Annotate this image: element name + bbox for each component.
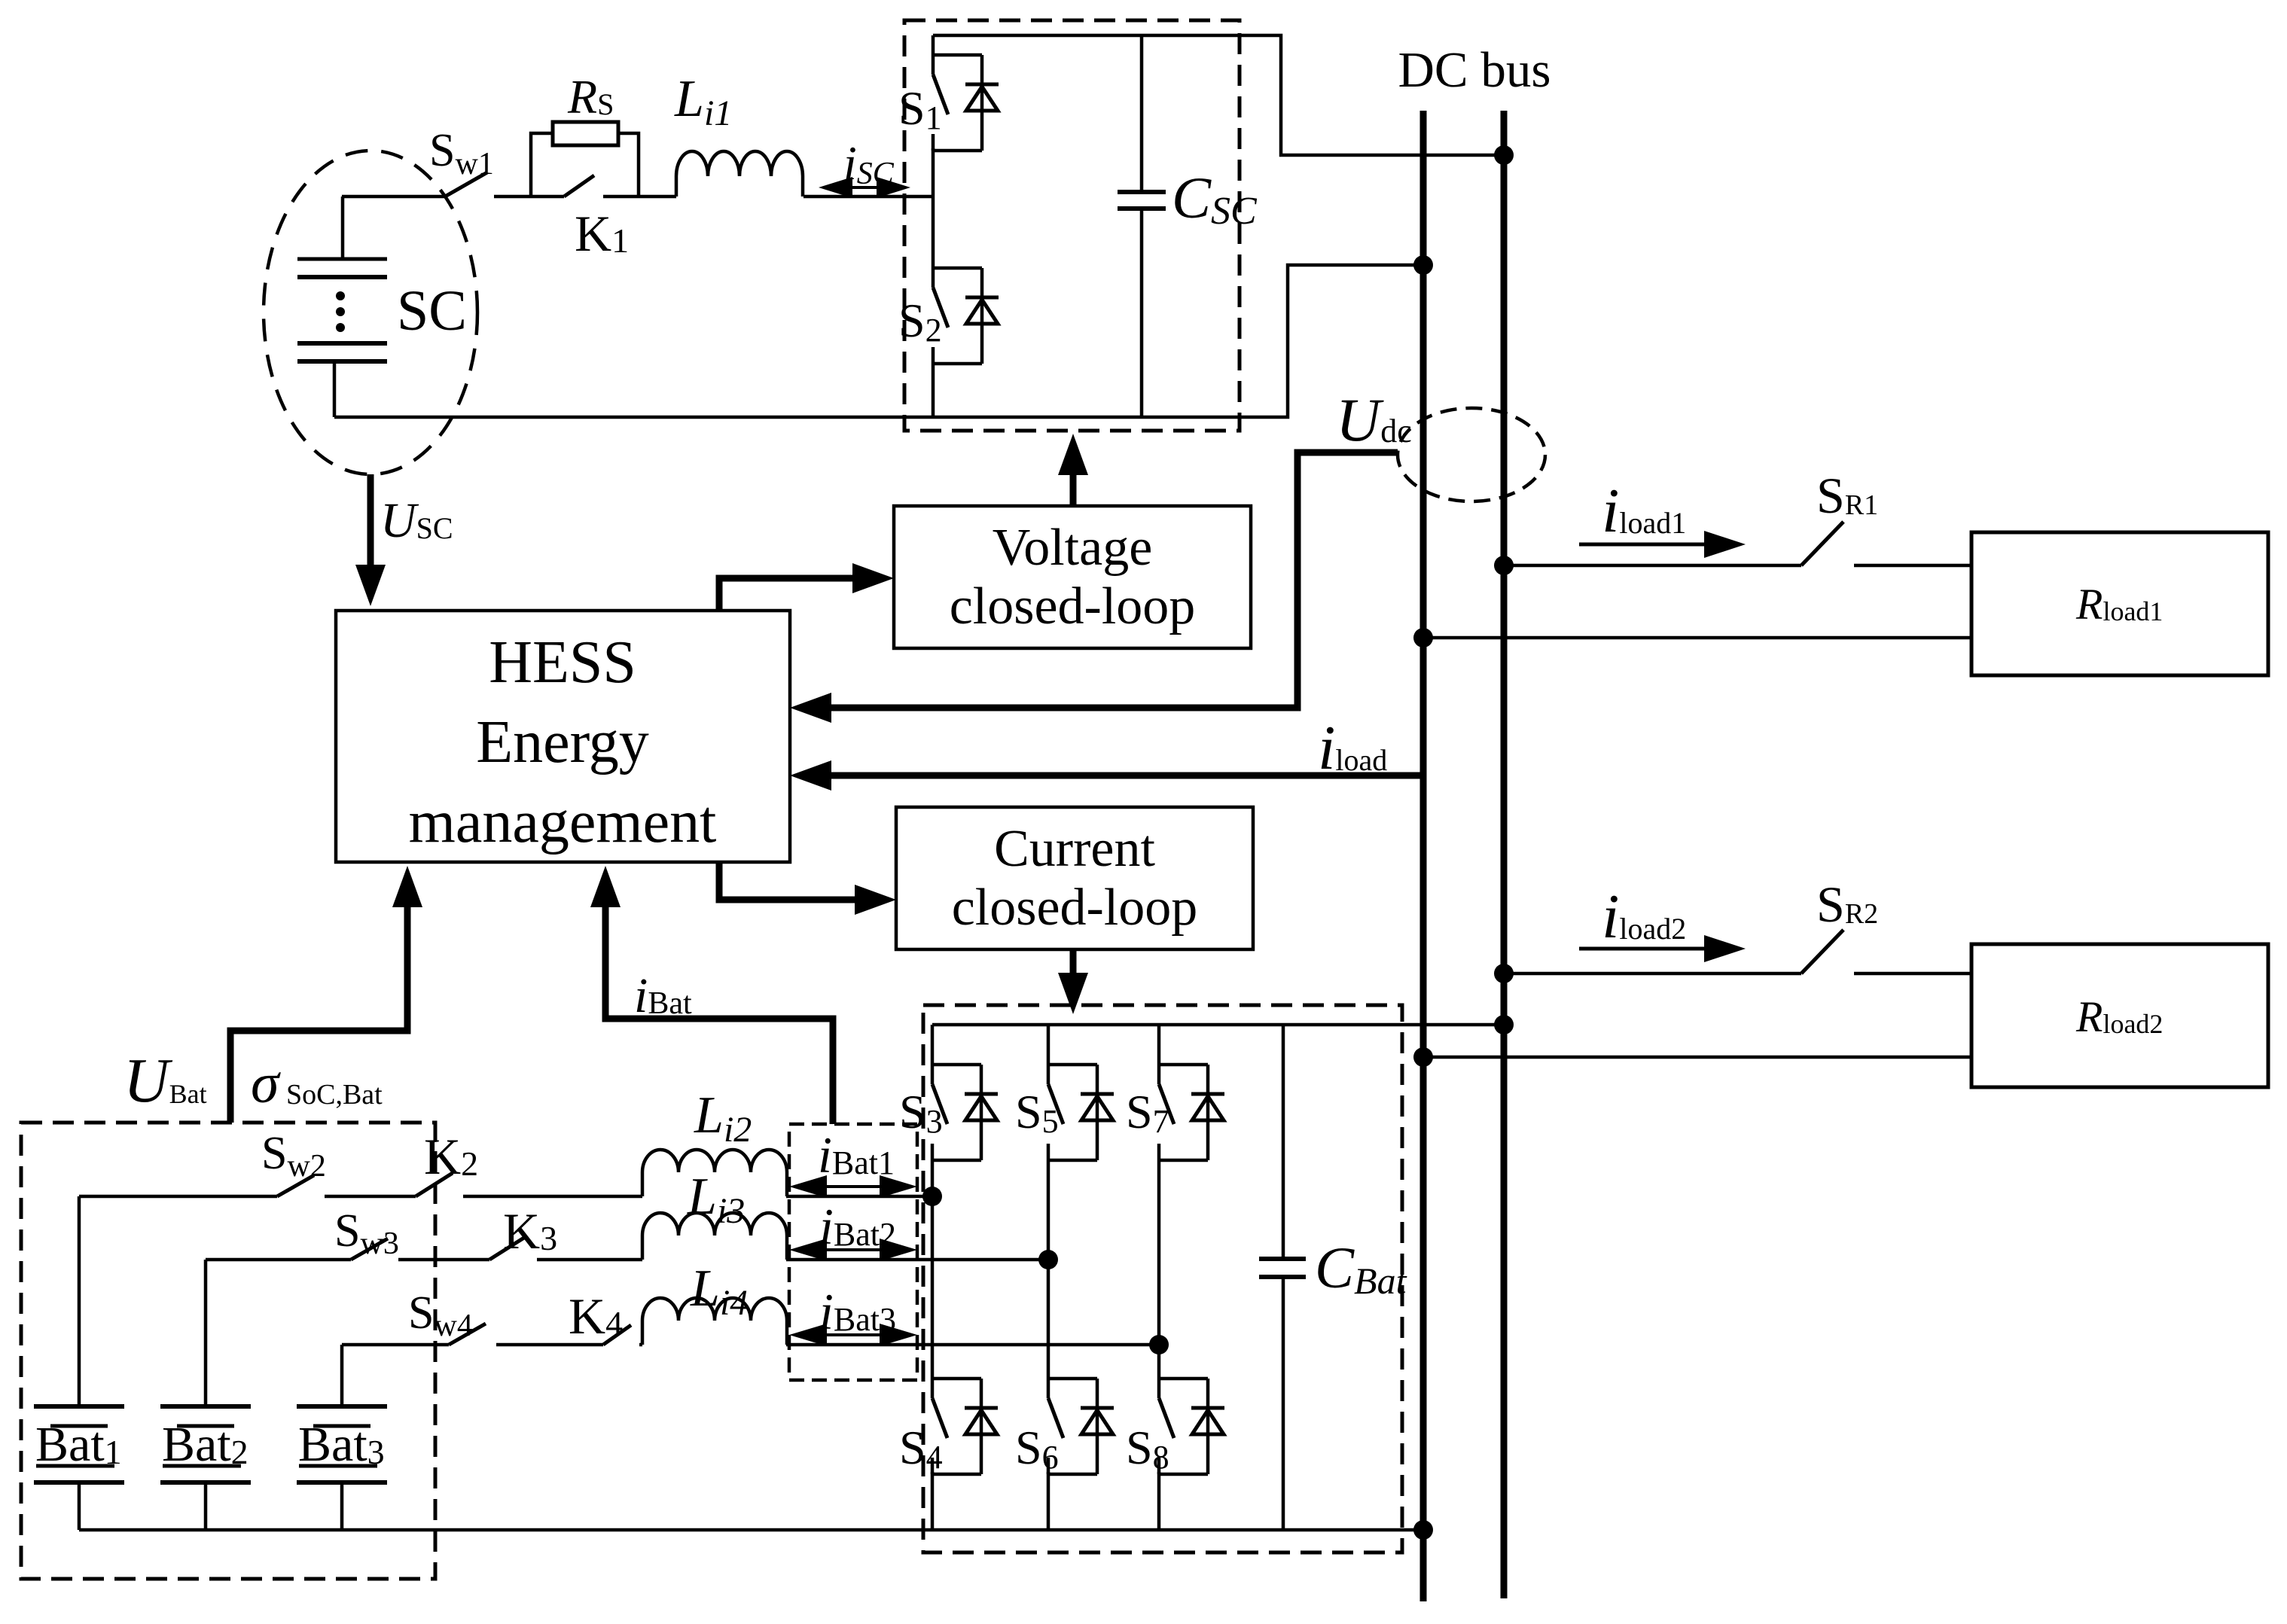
svg-text:Current: Current <box>994 820 1155 878</box>
wire Li3 to converter leg <box>786 1258 1048 1262</box>
wire Bat3 to Sw4 <box>342 1343 449 1347</box>
wire rail node to S8 <box>1157 1345 1161 1398</box>
wire Sw3 to K3 <box>398 1258 489 1262</box>
node junction dot bottom rail / left bus <box>1413 1520 1433 1540</box>
wire S7 upper rail <box>1157 1025 1161 1084</box>
wire K4 to Li4 <box>639 1343 642 1347</box>
wire Li4 to converter leg <box>786 1343 1159 1347</box>
wire HESS to Voltage loop arrow <box>719 578 855 611</box>
battery Bat3 <box>340 1345 344 1406</box>
transistor S8 <box>1159 1377 1208 1381</box>
iBat sensor dashed box <box>789 1124 917 1380</box>
transistor S5 <box>1048 1063 1097 1067</box>
switch Sw3 <box>351 1239 388 1260</box>
node junction dot top rail / right bus <box>1494 145 1514 165</box>
Current closed-loop box <box>896 807 1253 949</box>
capacitor CBat <box>1282 1025 1285 1259</box>
wire rail between S1 and S2 <box>932 148 935 288</box>
HESS Energy management box <box>336 611 790 862</box>
wire converter bottom rail to DC bus <box>334 265 1420 417</box>
wire iload feedback arrow <box>829 772 1423 779</box>
node iBat3 arrow <box>804 1333 902 1336</box>
svg-text:closed-loop: closed-loop <box>952 879 1198 937</box>
resistor Rload2 box <box>1971 944 2268 1087</box>
capacitor CSC <box>1140 35 1144 192</box>
switch K4 <box>603 1325 631 1345</box>
wire S5 upper rail <box>1047 1025 1050 1084</box>
inductor Li4 <box>642 1298 787 1345</box>
node junction dot load1 / right bus <box>1494 556 1514 575</box>
node junction dot leg 7 <box>1149 1335 1169 1354</box>
node iload2 arrow <box>1579 947 1709 951</box>
SC supercapacitor dashed ellipse <box>264 151 477 474</box>
node iBat1 arrow <box>804 1185 902 1188</box>
wire rail node to S6 <box>1047 1260 1050 1398</box>
wire Sw4 to K4 <box>496 1343 603 1347</box>
wire HESS to Current loop arrow <box>719 862 857 900</box>
node Udc sense dashed ellipse <box>1398 408 1545 501</box>
svg-text:Energy: Energy <box>476 709 649 775</box>
transistor S1 <box>933 53 982 57</box>
node junction dot leg 3 <box>922 1187 942 1206</box>
capacitor SC cell 1 <box>297 257 387 261</box>
wire DC bus left rail <box>1420 111 1427 1601</box>
SC bidirectional converter dashed box <box>904 20 1240 431</box>
svg-text:Voltage: Voltage <box>993 519 1153 577</box>
node SC dots <box>336 291 345 300</box>
wire Udc feedback arrow <box>829 452 1398 708</box>
wire converter top rail to DC bus <box>933 35 1501 155</box>
inductor Li1 <box>676 151 803 197</box>
wire S3 upper rail <box>931 1025 935 1084</box>
resistor Rload1 box <box>1971 532 2268 675</box>
switch SR1 <box>1801 522 1843 565</box>
switch SR2 <box>1801 930 1843 973</box>
wire Current loop to Bat converter arrow <box>1070 949 1077 975</box>
wire DC bus right rail <box>1501 111 1508 1598</box>
switch Sw2 <box>277 1175 314 1196</box>
wire Rload1 return to left bus <box>1423 636 1971 640</box>
battery bank dashed box <box>21 1123 435 1579</box>
node junction dot bottom rail / left bus <box>1413 255 1433 275</box>
wire Li2 to converter leg <box>786 1195 932 1199</box>
wire Sw2 to K2 <box>325 1195 416 1199</box>
switch Sw4 <box>449 1324 486 1345</box>
wire rail S7 to node <box>1157 1160 1161 1345</box>
wire Bat2 to Sw3 <box>206 1258 351 1262</box>
wire bus to SR2 <box>1504 972 1801 976</box>
wire K1 to Li1 <box>639 195 676 199</box>
battery Bat2 <box>204 1260 208 1406</box>
svg-text:HESS: HESS <box>489 629 636 696</box>
capacitor SC cell 2 <box>297 341 387 346</box>
node iBat2 arrow <box>804 1248 902 1251</box>
resistor RS branch <box>531 133 553 197</box>
wire converter top rail to right bus <box>932 1023 1501 1027</box>
battery Bat1 <box>78 1196 81 1406</box>
node junction dot bat top rail / right bus <box>1494 1015 1514 1034</box>
wire SC bottom lead <box>333 361 337 417</box>
wire SR2 to Rload2 <box>1854 972 1971 976</box>
wire Rload2 return to left bus <box>1423 1056 1971 1059</box>
svg-text:DC bus: DC bus <box>1398 42 1551 98</box>
svg-text:closed-loop: closed-loop <box>950 577 1196 635</box>
switch K1 <box>531 195 564 199</box>
inductor Li2 <box>642 1150 787 1196</box>
node junction dot load2 / right bus <box>1494 964 1514 983</box>
wire Sw1 to K1 block <box>494 195 531 199</box>
wire Voltage loop to SC converter arrow <box>1070 473 1077 506</box>
wire Li1 to converter <box>803 195 933 199</box>
wire UBat sigma arrow to HESS <box>230 905 407 1123</box>
transistor S6 <box>1048 1377 1097 1381</box>
node iSC current arrow <box>834 186 895 189</box>
node junction dot Rload1 return / left bus <box>1413 628 1433 647</box>
switch K2 <box>416 1173 453 1196</box>
transistor S4 <box>932 1377 981 1381</box>
wire K3 to Li3 <box>537 1258 642 1262</box>
inductor Li3 <box>642 1213 787 1260</box>
wire S6 lower rail <box>1047 1472 1050 1530</box>
Voltage closed-loop box <box>894 506 1251 648</box>
svg-text:SC: SC <box>397 279 467 343</box>
wire S2 lower rail <box>932 364 935 417</box>
wire SC top lead <box>341 197 345 259</box>
node junction dot leg 5 <box>1038 1250 1058 1269</box>
wire K2 to Li2 <box>463 1195 642 1199</box>
node junction dot Rload2 return / left bus <box>1413 1047 1433 1067</box>
wire rail S5 to node <box>1047 1160 1050 1260</box>
wire Bat1 to Sw2 <box>79 1195 277 1199</box>
node iload1 arrow <box>1579 543 1709 547</box>
wire SR1 to Rload1 <box>1854 564 1971 568</box>
svg-text:management: management <box>409 789 717 855</box>
wire SC to Sw1 <box>342 195 445 199</box>
wire S1 upper rail <box>932 35 935 75</box>
wire S8 lower rail <box>1157 1472 1161 1530</box>
wire rail node to S4 <box>931 1196 935 1398</box>
wire iBat feedback arrow to HESS <box>605 905 833 1124</box>
wire S4 lower rail <box>931 1472 935 1530</box>
transistor S2 <box>933 267 982 270</box>
switch K3 <box>489 1236 526 1260</box>
transistor S7 <box>1159 1063 1208 1067</box>
wire USC arrow SC to HESS <box>367 474 374 567</box>
transistor S3 <box>932 1063 981 1067</box>
wire bus to SR1 <box>1504 564 1801 568</box>
wire rail S3 to node <box>931 1160 935 1196</box>
battery converter dashed box <box>923 1005 1402 1552</box>
switch Sw1 <box>445 172 487 197</box>
wire battery bottom rail to left bus <box>79 1528 1420 1532</box>
